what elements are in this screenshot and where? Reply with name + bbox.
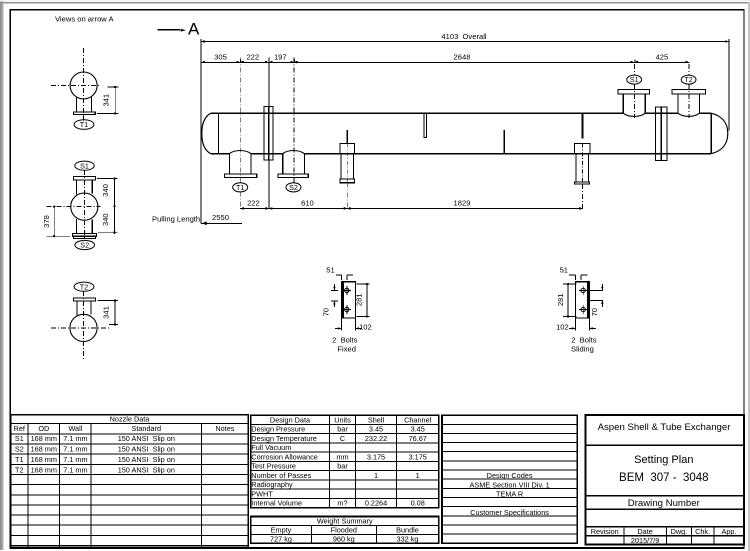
svg-text:332 kg: 332 kg bbox=[397, 534, 419, 543]
svg-text:4103 Overall: 4103 Overall bbox=[441, 32, 486, 41]
view S1/S2 (middle-left nozzle view) bbox=[42, 161, 118, 250]
svg-text:Shell: Shell bbox=[368, 415, 385, 424]
nozzle T2 (top) bbox=[672, 75, 706, 116]
svg-text:Design Pressure: Design Pressure bbox=[251, 425, 305, 434]
svg-text:Notes: Notes bbox=[215, 424, 234, 433]
shell circle T2 view bbox=[70, 314, 97, 341]
bolt 2 fixed bbox=[345, 307, 349, 311]
svg-text:3.175: 3.175 bbox=[367, 452, 385, 461]
svg-text:Wall: Wall bbox=[68, 424, 82, 433]
nozzle flange T1 view bbox=[74, 112, 96, 115]
svg-text:A: A bbox=[188, 20, 200, 39]
svg-text:Number of Passes: Number of Passes bbox=[251, 471, 311, 480]
neck S1 bbox=[76, 180, 78, 194]
shell top line bbox=[211, 112, 711, 114]
dimension 340 bottom (view S1/S2) bbox=[98, 232, 118, 234]
svg-text:S1: S1 bbox=[630, 75, 639, 84]
svg-text:Aspen Shell & Tube Exchanger: Aspen Shell & Tube Exchanger bbox=[598, 422, 732, 433]
svg-text:102: 102 bbox=[556, 322, 569, 331]
svg-text:340: 340 bbox=[101, 184, 110, 197]
label ellipse T2 main bbox=[681, 75, 696, 84]
svg-text:bar: bar bbox=[337, 462, 348, 471]
bolt 1 fixed bbox=[345, 288, 349, 292]
label ellipse T1 bbox=[74, 120, 94, 130]
vessel shell bbox=[202, 106, 728, 160]
svg-text:Revision: Revision bbox=[591, 527, 619, 536]
svg-text:Design Temperature: Design Temperature bbox=[251, 434, 317, 443]
svg-text:T2: T2 bbox=[684, 75, 692, 84]
bottom flange S2 (double) bbox=[72, 234, 96, 237]
left head weld seam bbox=[217, 113, 219, 154]
dimension 4103 Overall bbox=[201, 32, 729, 131]
left dished head bbox=[202, 113, 211, 154]
svg-text:T2: T2 bbox=[80, 282, 88, 291]
svg-text:Corrosion Allowance: Corrosion Allowance bbox=[251, 452, 318, 461]
svg-text:70: 70 bbox=[322, 308, 331, 316]
svg-text:7.1 mm: 7.1 mm bbox=[63, 434, 87, 443]
svg-text:bar: bar bbox=[337, 425, 348, 434]
extension line left end / pulling length bbox=[200, 39, 202, 223]
svg-text:T1: T1 bbox=[80, 120, 88, 129]
svg-text:168 mm: 168 mm bbox=[31, 455, 57, 464]
svg-text:168 mm: 168 mm bbox=[31, 445, 57, 454]
shell circle S1/S2 view bbox=[71, 193, 98, 220]
svg-text:3.45: 3.45 bbox=[369, 425, 383, 434]
extension line shell/channel joint bbox=[268, 58, 270, 209]
nozzle table vertical lines bbox=[28, 424, 202, 548]
centerline horizontal T1 view bbox=[51, 85, 100, 87]
svg-text:Weight Summary: Weight Summary bbox=[317, 517, 373, 526]
svg-text:App.: App. bbox=[721, 527, 736, 536]
centerline vertical T2 view bbox=[83, 291, 85, 361]
nozzle table horizontal lines bbox=[11, 424, 249, 546]
svg-text:BEM 307 - 3048: BEM 307 - 3048 bbox=[619, 472, 709, 484]
dim 51 marks fixed bbox=[336, 274, 342, 276]
svg-text:610: 610 bbox=[301, 199, 314, 208]
view arrow A bbox=[158, 20, 201, 39]
svg-text:1829: 1829 bbox=[454, 199, 471, 208]
svg-text:Date: Date bbox=[637, 527, 652, 536]
svg-text:425: 425 bbox=[656, 52, 669, 61]
svg-text:ASME Section VIII Div. 1: ASME Section VIII Div. 1 bbox=[470, 480, 550, 489]
svg-text:Views on arrow A: Views on arrow A bbox=[55, 15, 114, 24]
svg-text:0.08: 0.08 bbox=[411, 499, 425, 508]
svg-text:Fixed: Fixed bbox=[337, 344, 356, 353]
svg-text:mm: mm bbox=[336, 452, 348, 461]
svg-text:378: 378 bbox=[42, 215, 51, 228]
extension centerline T1 below label bbox=[239, 192, 241, 209]
slot center line sliding bbox=[589, 299, 603, 301]
right channel flange pair bbox=[656, 107, 662, 161]
svg-text:281: 281 bbox=[354, 293, 363, 306]
flange T2 view bbox=[74, 298, 96, 301]
title block horizontal lines bbox=[586, 445, 744, 536]
svg-text:TEMA R: TEMA R bbox=[496, 489, 523, 498]
svg-text:Design Data: Design Data bbox=[270, 415, 311, 424]
svg-text:Design Codes: Design Codes bbox=[487, 471, 533, 480]
baffle line (from middle to bottom) bbox=[503, 130, 505, 154]
nozzle data table bbox=[11, 415, 249, 548]
dimension 341 (view T2) bbox=[98, 300, 119, 302]
svg-text:7.1 mm: 7.1 mm bbox=[63, 445, 87, 454]
label ellipse T1 main bbox=[233, 183, 248, 192]
nozzle S2 (bottom) bbox=[278, 151, 308, 192]
svg-text:T1: T1 bbox=[236, 183, 244, 192]
neck S2 bbox=[76, 219, 78, 234]
dim 102 fixed bbox=[341, 318, 343, 331]
svg-text:341: 341 bbox=[102, 306, 111, 319]
svg-text:Drawing Number: Drawing Number bbox=[628, 498, 701, 509]
dim 102 sliding bbox=[574, 318, 576, 331]
svg-text:Bundle: Bundle bbox=[396, 526, 419, 535]
svg-text:m?: m? bbox=[337, 499, 347, 508]
dimension Pulling Length 2550 bbox=[152, 213, 242, 225]
svg-text:168 mm: 168 mm bbox=[31, 465, 57, 474]
dimension row 305 / 222 / 197 / 2648 / 425 bbox=[201, 52, 689, 63]
centerline horizontal T2 view bbox=[51, 327, 109, 329]
right head weld seam bbox=[710, 113, 712, 154]
top flange S1 bbox=[73, 177, 95, 180]
fixed saddle bbox=[340, 144, 355, 183]
right dished head bbox=[711, 113, 728, 154]
svg-text:Units: Units bbox=[334, 415, 351, 424]
svg-text:222: 222 bbox=[247, 199, 260, 208]
svg-text:3.175: 3.175 bbox=[409, 452, 427, 461]
svg-text:Customer Specifications: Customer Specifications bbox=[470, 508, 549, 517]
svg-text:S2: S2 bbox=[289, 183, 298, 192]
svg-text:Setting Plan: Setting Plan bbox=[634, 454, 693, 466]
nozzle T1 (bottom) bbox=[225, 151, 257, 192]
bolt detail sliding bbox=[556, 266, 604, 354]
dim 70 fixed bbox=[331, 289, 338, 291]
title block bbox=[586, 415, 744, 545]
svg-text:2550: 2550 bbox=[212, 213, 229, 222]
svg-text:150 ANSI Slip on: 150 ANSI Slip on bbox=[118, 455, 175, 464]
svg-text:960 kg: 960 kg bbox=[333, 534, 355, 543]
svg-text:Pulling Length: Pulling Length bbox=[152, 214, 200, 223]
svg-text:T1: T1 bbox=[15, 455, 24, 464]
svg-text:Chk.: Chk. bbox=[695, 527, 710, 536]
svg-text:S2: S2 bbox=[15, 445, 24, 454]
svg-text:51: 51 bbox=[326, 266, 334, 275]
svg-text:341: 341 bbox=[102, 94, 111, 107]
svg-text:281: 281 bbox=[556, 293, 565, 306]
svg-text:C: C bbox=[340, 434, 345, 443]
svg-text:Empty: Empty bbox=[271, 526, 292, 535]
notes / design codes table bbox=[442, 415, 577, 543]
view T2 (bottom-left nozzle view) bbox=[51, 282, 118, 361]
neck T2 view bbox=[76, 301, 78, 316]
extension centerline S1 bbox=[633, 64, 635, 75]
dim 51 marks sliding bbox=[569, 274, 575, 276]
svg-text:7.1 mm: 7.1 mm bbox=[63, 465, 87, 474]
dim 281 sliding bbox=[563, 283, 577, 285]
weight summary table bbox=[251, 517, 439, 544]
dim 281 fixed bbox=[357, 283, 370, 285]
rod line above fixed saddle bbox=[346, 130, 348, 144]
extension centerline T2 bbox=[688, 64, 690, 75]
bolt slot 1 sliding bbox=[581, 288, 585, 292]
base plate sliding bbox=[575, 282, 589, 318]
base plate fixed bbox=[342, 282, 356, 318]
svg-text:150 ANSI Slip on: 150 ANSI Slip on bbox=[118, 434, 175, 443]
bolt slot 2 sliding bbox=[581, 307, 585, 311]
svg-text:150 ANSI Slip on: 150 ANSI Slip on bbox=[118, 445, 175, 454]
svg-text:Nozzle Data: Nozzle Data bbox=[110, 415, 151, 424]
baffle line (from top, above sliding saddle) bbox=[581, 113, 583, 138]
extension centerline sliding saddle below bbox=[581, 184, 583, 209]
nozzle neck T1 view bbox=[76, 97, 78, 112]
centerline horizontal S1/S2 view bbox=[46, 206, 100, 208]
svg-text:168 mm: 168 mm bbox=[31, 434, 57, 443]
svg-text:T2: T2 bbox=[15, 465, 24, 474]
label ellipse T2 bbox=[74, 282, 94, 291]
nozzle S1 (top) bbox=[618, 75, 650, 116]
extension centerline T1 bbox=[239, 58, 241, 184]
view T1 (top-left nozzle view) bbox=[51, 48, 119, 129]
bolt detail fixed bbox=[322, 266, 372, 354]
design data table bbox=[251, 415, 439, 508]
svg-text:305: 305 bbox=[214, 52, 227, 61]
main drawing bbox=[42, 15, 729, 361]
label ellipse S2 bbox=[75, 240, 95, 249]
dim 70 sliding bbox=[601, 284, 603, 291]
design table vertical lines bbox=[330, 415, 397, 508]
svg-text:150 ANSI Slip on: 150 ANSI Slip on bbox=[118, 465, 175, 474]
label ellipse S1 main bbox=[627, 75, 642, 84]
svg-text:3.45: 3.45 bbox=[411, 425, 425, 434]
svg-text:51: 51 bbox=[560, 266, 568, 275]
dimension 340 top (view S1/S2) bbox=[97, 177, 118, 179]
svg-text:Channel: Channel bbox=[404, 415, 432, 424]
design table horizontal lines bbox=[251, 424, 439, 498]
svg-text:340: 340 bbox=[101, 213, 110, 226]
svg-text:70: 70 bbox=[590, 308, 599, 316]
extension line right end bbox=[728, 39, 730, 130]
svg-text:76.67: 76.67 bbox=[409, 434, 427, 443]
svg-text:Test Pressure: Test Pressure bbox=[251, 462, 296, 471]
shell bottom line bbox=[211, 153, 711, 155]
svg-text:OD: OD bbox=[38, 424, 49, 433]
svg-text:S2: S2 bbox=[80, 241, 89, 250]
svg-text:232.22: 232.22 bbox=[365, 434, 387, 443]
dimension 341 (view T1) bbox=[108, 86, 119, 88]
svg-text:0.2264: 0.2264 bbox=[365, 499, 387, 508]
svg-text:222: 222 bbox=[246, 52, 259, 61]
svg-text:1: 1 bbox=[416, 471, 420, 480]
baffle (narrow plate, from top) bbox=[424, 113, 427, 137]
extension centerline fixed saddle below bbox=[346, 183, 348, 209]
svg-text:Sliding: Sliding bbox=[571, 344, 594, 353]
label ellipse S1 bbox=[75, 161, 94, 170]
svg-text:2648: 2648 bbox=[454, 52, 471, 61]
svg-text:Radiography: Radiography bbox=[251, 480, 293, 489]
title block vertical lines bbox=[624, 527, 714, 545]
extension centerline S2 bbox=[293, 58, 295, 184]
centerline vertical S1/S2 view bbox=[83, 170, 85, 241]
svg-text:7.1 mm: 7.1 mm bbox=[63, 455, 87, 464]
svg-text:197: 197 bbox=[274, 52, 287, 61]
shell circle T1 view bbox=[70, 72, 97, 99]
svg-text:102: 102 bbox=[359, 322, 372, 331]
dimension row bottom 222 / 610 / 1829 bbox=[240, 199, 583, 210]
svg-text:Internal Volume: Internal Volume bbox=[251, 499, 302, 508]
svg-text:727 kg: 727 kg bbox=[270, 534, 292, 543]
svg-text:S1: S1 bbox=[15, 434, 24, 443]
data tables and title block bbox=[11, 415, 744, 548]
sliding saddle bbox=[575, 144, 591, 184]
centerline vertical T1 view bbox=[83, 48, 85, 120]
svg-text:Full Vacuum: Full Vacuum bbox=[251, 443, 291, 452]
dimension 378 (view S1/S2) bbox=[46, 235, 70, 237]
svg-text:2015/7/9: 2015/7/9 bbox=[631, 536, 659, 545]
svg-text:S1: S1 bbox=[80, 161, 89, 170]
svg-text:Ref: Ref bbox=[14, 424, 26, 433]
svg-text:PWHT: PWHT bbox=[251, 489, 273, 498]
left channel flange pair bbox=[264, 106, 269, 160]
svg-text:Dwg.: Dwg. bbox=[671, 527, 688, 536]
label ellipse S2 main bbox=[286, 183, 301, 192]
svg-text:Flooded: Flooded bbox=[331, 526, 357, 535]
svg-text:1: 1 bbox=[374, 471, 378, 480]
svg-text:Standard: Standard bbox=[131, 424, 161, 433]
